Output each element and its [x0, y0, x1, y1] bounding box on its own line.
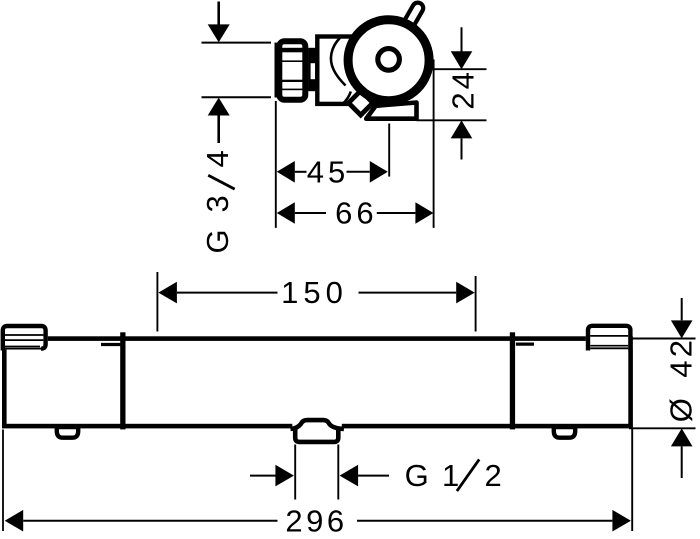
dim 150 right line	[359, 292, 457, 294]
dim 296 right line	[357, 520, 612, 522]
label G 3/4 (rotated)	[200, 146, 235, 253]
svg-text:296: 296	[285, 504, 347, 539]
left escutcheon tick	[101, 343, 120, 346]
svg-text:Ø: Ø	[664, 394, 699, 422]
dim 66 left line	[295, 212, 326, 214]
dim G1/2 right extension line	[337, 445, 339, 500]
left wall tab inner line 2	[5, 339, 44, 341]
left wall tab outline	[3, 326, 46, 351]
right screw cover bump	[554, 427, 575, 438]
svg-text:3: 3	[200, 191, 235, 212]
lever inner slot	[407, 8, 418, 27]
svg-text:4: 4	[200, 146, 235, 167]
dim 296 left line	[23, 520, 277, 522]
svg-text:66: 66	[335, 196, 377, 231]
dim 24 lower arrowhead	[451, 120, 473, 138]
dim G3/4 lower tail line	[217, 116, 220, 144]
housing inner small arc	[343, 92, 351, 105]
svg-text:42: 42	[664, 337, 699, 378]
dim Ø42 top extension line	[629, 338, 696, 340]
dim 66 right arrowhead	[415, 202, 433, 224]
outlet dome	[291, 420, 344, 429]
right escutcheon tick	[516, 343, 534, 346]
union nut knurl stripe 2	[280, 60, 305, 62]
svg-text:45: 45	[307, 155, 349, 190]
outlet connector box	[295, 429, 338, 442]
left wall tab inner line 3	[5, 345, 40, 347]
dim G1/2 left arrowhead	[275, 465, 294, 487]
dim 45 right arrowhead	[370, 161, 388, 183]
dim 45 right line	[347, 171, 370, 173]
right wall tab bottom line	[590, 347, 628, 349]
right escutcheon divider	[510, 332, 515, 429]
svg-text:G: G	[405, 458, 433, 493]
center screw circle	[378, 49, 400, 71]
left wall tab bottom line	[5, 348, 42, 350]
dim G3/4 top extension line	[202, 42, 272, 44]
dim 66 right line	[377, 212, 416, 214]
left wall tab fill	[1, 324, 48, 350]
collar white slot	[311, 63, 316, 79]
tilted square outlet stub	[349, 91, 373, 115]
dim 66 left arrowhead	[277, 202, 295, 224]
dim 296 left extension line	[2, 430, 4, 532]
dim Ø42 lower tail	[681, 446, 683, 478]
dim 45 left arrowhead	[277, 161, 295, 183]
extension line right of circle	[433, 60, 435, 228]
label 24 (rotated)	[446, 69, 481, 109]
housing inner contour curve	[331, 38, 346, 86]
dim 296 left arrowhead	[5, 510, 24, 532]
dim G1/2 left extension line	[294, 445, 296, 500]
dim G3/4 lower arrowhead	[208, 98, 230, 116]
dim 45 left line	[295, 171, 307, 173]
dim G1/2 right line	[358, 475, 389, 477]
collar between nut and housing	[308, 48, 317, 91]
dim G3/4 bottom extension line	[202, 96, 272, 98]
svg-text:2: 2	[485, 458, 506, 493]
dim 24 upper tail	[461, 27, 463, 51]
extension line below nut	[275, 101, 277, 228]
label G 1/2 slash	[457, 459, 479, 491]
dim 150 left arrowhead	[158, 282, 177, 304]
union nut knurl stripe 1	[280, 48, 305, 53]
union nut body	[279, 41, 305, 99]
dim G3/4 upper arrowhead	[208, 24, 230, 42]
union nut knurl stripe 4	[280, 89, 305, 91]
dim 296 right extension line	[631, 429, 633, 531]
dim Ø42 lower arrowhead	[671, 428, 693, 446]
dim Ø42 bottom extension line	[629, 427, 696, 429]
right wall tab fill	[586, 324, 633, 350]
dim G1/2 left line	[250, 475, 276, 477]
left wall tab inner line 1	[5, 334, 44, 336]
svg-text:24: 24	[446, 69, 481, 109]
label Ø 42 (rotated)	[664, 337, 699, 422]
valve housing rectangle	[317, 37, 401, 104]
extension line below bracket (valve axis)	[388, 124, 390, 177]
union nut knurl stripe 3	[280, 80, 305, 82]
right wall tab inner line 2	[590, 345, 628, 347]
dim G3/4 upper tail line	[217, 2, 220, 26]
svg-text:G: G	[200, 225, 235, 253]
dim 150 left line	[177, 292, 278, 294]
outlet bottom edge gap cover	[292, 424, 342, 432]
dim 150 right arrowhead	[456, 282, 475, 304]
dim 296 right arrowhead	[612, 510, 631, 532]
dim 24 upper arrowhead	[451, 51, 473, 69]
dim 24 bottom extension line	[417, 119, 487, 121]
dim 24 lower tail	[461, 138, 463, 159]
lever outer	[407, 8, 418, 27]
union nut pipe stub	[275, 43, 280, 98]
dim Ø42 upper arrowhead	[671, 320, 693, 338]
left escutcheon divider	[120, 332, 125, 429]
dim G1/2 right arrowhead	[340, 465, 359, 487]
dim Ø42 upper tail	[681, 298, 683, 320]
dim 150 left extension line	[156, 272, 158, 332]
right wall tab inner line 1	[590, 335, 628, 337]
right wall tab outline	[588, 326, 630, 351]
dim 150 right extension line	[475, 276, 477, 332]
outlet bracket	[366, 103, 416, 119]
left screw cover bump	[57, 427, 78, 438]
valve body circle	[348, 20, 429, 101]
svg-text:150: 150	[281, 275, 348, 310]
dim 24 top extension line	[433, 68, 487, 70]
mixer bar body	[4, 339, 630, 427]
